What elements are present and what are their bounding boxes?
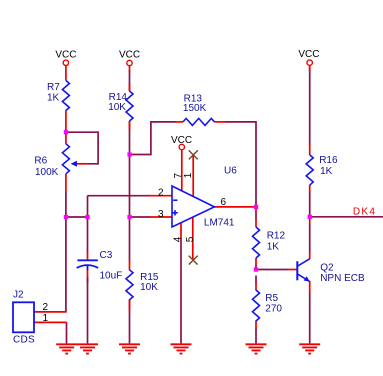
svg-text:CDS: CDS bbox=[13, 334, 35, 345]
svg-text:4: 4 bbox=[173, 236, 184, 242]
svg-text:1: 1 bbox=[183, 172, 194, 178]
svg-text:1K: 1K bbox=[47, 93, 60, 104]
svg-text:6: 6 bbox=[221, 197, 227, 208]
svg-text:J2: J2 bbox=[13, 290, 24, 301]
svg-text:2: 2 bbox=[43, 302, 49, 313]
svg-text:Q2: Q2 bbox=[320, 262, 334, 273]
svg-text:LM741: LM741 bbox=[204, 218, 235, 229]
svg-text:10K: 10K bbox=[108, 102, 126, 113]
svg-text:DK4: DK4 bbox=[353, 207, 376, 218]
svg-text:2: 2 bbox=[158, 188, 164, 199]
svg-text:NPN ECB: NPN ECB bbox=[320, 273, 365, 284]
svg-text:VCC: VCC bbox=[298, 49, 319, 60]
svg-text:R5: R5 bbox=[265, 293, 278, 304]
svg-text:150K: 150K bbox=[183, 103, 207, 114]
svg-text:VCC: VCC bbox=[119, 50, 140, 61]
svg-text:R6: R6 bbox=[34, 155, 47, 166]
svg-text:R16: R16 bbox=[319, 155, 338, 166]
svg-text:U6: U6 bbox=[224, 166, 237, 177]
svg-text:5: 5 bbox=[185, 236, 196, 242]
svg-text:R12: R12 bbox=[267, 231, 286, 242]
svg-text:VCC: VCC bbox=[55, 50, 76, 61]
svg-text:1K: 1K bbox=[320, 166, 333, 177]
svg-text:100K: 100K bbox=[35, 167, 59, 178]
svg-text:VCC: VCC bbox=[171, 135, 192, 146]
svg-text:1K: 1K bbox=[267, 241, 280, 252]
svg-text:270: 270 bbox=[265, 303, 282, 314]
svg-text:3: 3 bbox=[158, 209, 164, 220]
svg-text:10uF: 10uF bbox=[100, 270, 123, 281]
svg-text:C3: C3 bbox=[100, 250, 113, 261]
svg-text:1: 1 bbox=[43, 313, 49, 324]
svg-text:10K: 10K bbox=[140, 282, 158, 293]
